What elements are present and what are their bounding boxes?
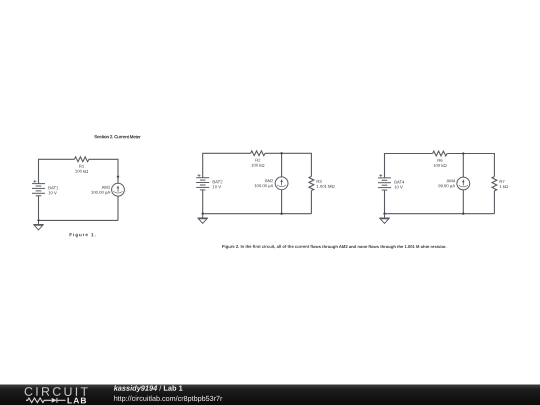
resistor R2 [251,151,266,156]
svg-text:100.00 µA: 100.00 µA [254,183,273,188]
battery BAT1 [32,180,45,196]
footer background bar [0,385,540,405]
wire: circuit3 top-right segment [447,154,494,177]
CircuitLab logo schematic: diode [52,398,66,403]
wire: circuit2 middle branch bottom [281,190,283,214]
battery BAT2 [196,174,209,190]
svg-text:10 V: 10 V [212,184,221,189]
svg-text:LAB: LAB [67,395,88,405]
svg-text:Figure 1.: Figure 1. [69,232,96,237]
wire: circuit2 top-left segment [203,153,251,177]
svg-text:100 kΩ: 100 kΩ [75,169,88,174]
svg-text:Figure 2. In the first circuit: Figure 2. In the first circuit, all of t… [222,244,447,249]
node: circuit2 ground junction [202,213,204,215]
ammeter AM4 [457,177,470,190]
svg-text:100 kΩ: 100 kΩ [433,163,446,168]
ground: circuit3 [379,214,389,224]
wire: circuit2 right below resistor R3 [310,191,312,214]
node: circuit3 middle top junction [462,152,464,154]
resistor R6 [433,151,448,156]
current arrow on circuit1 right wire [117,176,120,179]
node: circuit1 ground junction dot [37,219,39,221]
node: circuit2 middle top junction [280,152,282,154]
svg-text:10 V: 10 V [394,185,403,190]
wire: circuit1 left below battery [38,196,40,221]
wire: circuit1 top-right segment [89,159,118,183]
svg-text:10 V: 10 V [48,190,57,195]
wire: circuit2 middle branch top [281,153,283,177]
wire: circuit1 right below ammeter [117,196,119,220]
wire: circuit2 top-right segment [265,153,311,176]
svg-text:99.90 µA: 99.90 µA [438,183,455,188]
ground: circuit1 [33,220,43,230]
ammeter AM2 [275,177,288,190]
wire: circuit3 middle branch top [462,154,464,178]
wire: circuit3 bottom [385,213,495,215]
node: circuit3 middle bottom junction [462,213,464,215]
svg-text:kassidy9194 / Lab 1: kassidy9194 / Lab 1 [114,384,183,393]
wire: circuit2 bottom [203,213,312,215]
wire: circuit1 bottom [39,219,119,221]
wire: circuit1 top-left segment [39,159,75,183]
ground: circuit2 [198,214,208,224]
svg-text:100.00 µA: 100.00 µA [91,190,110,195]
ammeter AM1 [112,183,125,196]
battery BAT4 [378,174,391,190]
svg-text:100 kΩ: 100 kΩ [251,163,264,168]
CircuitLab logo schematic: resistor zigzag [26,398,52,403]
svg-text:1.001 MΩ: 1.001 MΩ [316,184,334,189]
svg-text:Section 2. Current Meter: Section 2. Current Meter [94,134,141,139]
resistor R7 (vertical) [492,177,497,191]
resistor R1 [74,157,89,162]
wire: circuit3 top-left segment [385,154,433,178]
wire: circuit2 left below battery [202,190,204,214]
svg-text:1 kΩ: 1 kΩ [499,184,508,189]
svg-text:http://circuitlab.com/cr8ptbpb: http://circuitlab.com/cr8ptbpb53r7r [114,394,223,403]
node: circuit2 middle bottom junction [280,213,282,215]
wire: circuit3 middle branch bottom [462,190,464,214]
wire: circuit3 left below battery [384,190,386,214]
wire: circuit3 right below resistor R7 [493,191,495,214]
resistor R3 (vertical) [309,176,314,190]
node: circuit3 ground junction [383,213,385,215]
